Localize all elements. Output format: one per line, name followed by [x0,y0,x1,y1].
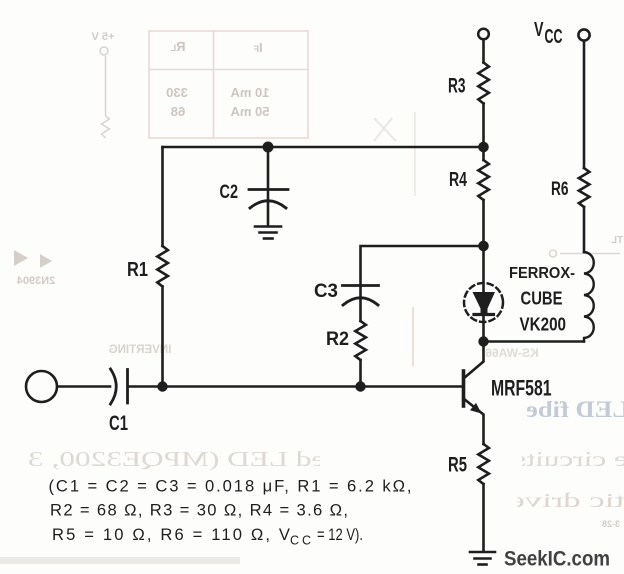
resistor R6 [551,41,589,252]
svg-text:MRF581: MRF581 [491,376,552,401]
resistor R4 [449,147,489,246]
svg-text:CUBE: CUBE [521,288,563,309]
resistor R2 [326,321,366,387]
svg-text:C2: C2 [220,181,239,203]
transistor Q1 MRF581 [464,342,552,445]
node junction C1/R1 [157,381,167,391]
svg-text:R2 = 68 Ω, R3 = 30 Ω, R4: R2 = 68 Ω, R3 = 30 Ω, R4 = 3.6 Ω, [50,501,348,520]
svg-text:R3: R3 [448,75,466,98]
wire top horizontal [163,146,484,149]
input terminal [26,371,57,402]
terminal VCC [578,29,589,40]
resistor R3 [448,40,489,148]
node junction R2 bottom [355,381,365,391]
svg-text:50 mA: 50 mA [230,104,270,119]
svg-text:330: 330 [166,85,188,100]
svg-text:VK200: VK200 [520,314,567,335]
svg-text:SeekIC.com: SeekIC.com [504,547,610,571]
node junction R3/R4 [478,142,489,153]
svg-text:R4: R4 [449,168,467,191]
svg-text:R6: R6 [551,179,569,200]
inductor FERROXCUBE VK200 [509,252,594,342]
ground under R5 [470,552,495,565]
label VCC [534,19,563,48]
faint reverse-page table grid [149,31,308,138]
svg-text:68: 68 [171,104,185,119]
svg-text:R1: R1 [127,258,148,281]
svg-text:V: V [534,19,544,41]
node junction collector [478,336,488,346]
svg-text:= 12 V).: = 12 V). [317,525,363,544]
LED diode in dashed circle [464,246,503,342]
capacitor C3 [314,280,379,321]
svg-text:CC: CC [545,26,563,48]
svg-text:+5 V: +5 V [91,31,115,43]
node junction R4 bottom [478,241,489,252]
capacitor C1 [58,369,163,435]
svg-text:R5 = 10 Ω, R6 = 110 Ω, V: R5 = 10 Ω, R6 = 110 Ω, V [52,525,290,544]
ground under C2 [255,227,281,239]
node junction C2 top [263,142,274,153]
svg-text:2N3904: 2N3904 [16,275,55,287]
resistor R1 [127,147,168,387]
wire base [163,385,464,388]
svg-text:TL: TL [611,235,623,246]
svg-text:R5: R5 [448,454,467,477]
svg-text:FERROX-: FERROX- [509,265,575,282]
svg-text:R2: R2 [326,328,349,350]
capacitor C2 [220,147,289,226]
component values note [49,477,412,548]
wire to C3 [361,246,484,284]
svg-text:C3: C3 [314,280,338,302]
svg-text:10 mA: 10 mA [230,85,270,100]
terminal at top of R3 [478,29,489,40]
svg-text:C1: C1 [109,412,128,435]
wire collector to inductor [484,340,585,343]
resistor R5 [448,444,489,552]
svg-text:KS-WA66: KS-WA66 [485,346,539,360]
svg-text:3-28: 3-28 [602,519,620,529]
